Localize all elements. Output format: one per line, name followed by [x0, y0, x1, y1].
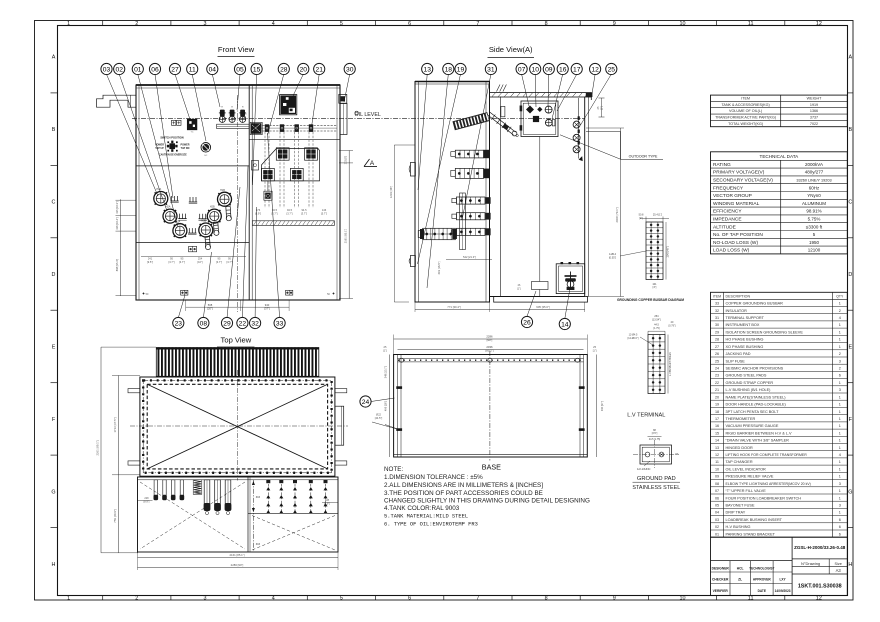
svg-text:QTY: QTY — [836, 294, 844, 298]
svg-text:Ø22: Ø22 — [376, 412, 381, 416]
svg-text:ZGSL-H-2000/33.26-0.48: ZGSL-H-2000/33.26-0.48 — [794, 545, 846, 550]
svg-text:6. TYPE OF OIL:ENVIROTEMP FR3: 6. TYPE OF OIL:ENVIROTEMP FR3 — [384, 521, 478, 527]
svg-text:2000kVA: 2000kVA — [805, 162, 823, 167]
svg-text:C: C — [52, 200, 56, 206]
svg-text:2: 2 — [839, 309, 841, 313]
svg-text:A: A — [370, 160, 375, 167]
svg-text:[3.7"]: [3.7"] — [227, 260, 233, 264]
svg-text:98.91%: 98.91% — [806, 209, 821, 214]
svg-text:480y/277: 480y/277 — [805, 170, 824, 175]
svg-text:THERMOMETER: THERMOMETER — [726, 417, 756, 421]
svg-text:PRIMARY VOLTAGE(V): PRIMARY VOLTAGE(V) — [713, 170, 765, 176]
svg-text:1919: 1919 — [810, 103, 818, 107]
svg-text:07: 07 — [518, 66, 526, 73]
svg-text:20: 20 — [715, 395, 719, 399]
svg-text:22: 22 — [715, 381, 719, 385]
svg-text:HCL: HCL — [737, 566, 744, 570]
svg-text:4: 4 — [272, 596, 275, 602]
svg-text:≤3300 ft: ≤3300 ft — [806, 224, 823, 229]
svg-text:23: 23 — [175, 320, 183, 327]
svg-text:940 [37"]: 940 [37"] — [600, 401, 604, 412]
svg-text:TECHNICAL DATA: TECHNICAL DATA — [760, 154, 800, 159]
svg-text:INSTRUMENT BOX: INSTRUMENT BOX — [726, 323, 760, 327]
svg-text:03: 03 — [715, 518, 719, 522]
svg-text:GROUND PAD: GROUND PAD — [637, 476, 676, 482]
svg-text:1SKT.001.S30038: 1SKT.001.S30038 — [798, 584, 842, 590]
svg-text:[20"]: [20"] — [207, 307, 213, 311]
svg-text:H: H — [52, 562, 56, 568]
svg-text:TANK & ACCESSORIES(KG): TANK & ACCESSORIES(KG) — [721, 103, 769, 107]
svg-text:[5.7"]: [5.7"] — [321, 211, 327, 215]
svg-text:5.TANK MATERIAL:MILD STEEL: 5.TANK MATERIAL:MILD STEEL — [384, 514, 468, 520]
svg-text:RIGID BARRIER BETWEEN H.V & L.: RIGID BARRIER BETWEEN H.V & L.V — [726, 431, 793, 435]
svg-text:DATE: DATE — [758, 589, 766, 593]
svg-text:5: 5 — [340, 21, 343, 27]
svg-text:12: 12 — [816, 596, 822, 602]
svg-text:1: 1 — [839, 338, 841, 342]
svg-text:ZL: ZL — [738, 578, 742, 582]
svg-text:1950: 1950 — [809, 240, 820, 245]
svg-text:1: 1 — [839, 467, 841, 471]
svg-text:PARKING STAND BRACKET: PARKING STAND BRACKET — [726, 532, 776, 536]
svg-text:02: 02 — [715, 525, 719, 529]
svg-text:28: 28 — [715, 338, 719, 342]
svg-text:TC: TC — [191, 132, 194, 134]
svg-text:CHECKER: CHECKER — [712, 578, 729, 582]
svg-text:3: 3 — [839, 388, 841, 392]
svg-text:LIFTING HOOK FOR COMPLETE TRAN: LIFTING HOOK FOR COMPLETE TRANSFORMER — [726, 453, 808, 457]
svg-text:21: 21 — [315, 66, 323, 73]
svg-text:25: 25 — [715, 359, 719, 363]
svg-text:[1"]: [1"] — [593, 348, 597, 352]
svg-text:29: 29 — [715, 330, 719, 334]
svg-text:[3.7"]: [3.7"] — [287, 211, 293, 215]
svg-text:10: 10 — [715, 467, 719, 471]
svg-text:VECTOR GROUP: VECTOR GROUP — [713, 193, 752, 199]
svg-text:COPPER GROUNDING BUSBAR: COPPER GROUNDING BUSBAR — [726, 302, 784, 306]
svg-text:416 [16.4"]: 416 [16.4"] — [115, 217, 119, 230]
svg-text:06: 06 — [151, 66, 159, 73]
svg-text:E: E — [52, 345, 56, 351]
svg-text:3: 3 — [839, 504, 841, 508]
svg-text:[3.7"]: [3.7"] — [301, 211, 307, 215]
svg-text:2: 2 — [839, 352, 841, 356]
svg-text:INSULATOR: INSULATOR — [726, 309, 748, 313]
svg-text:04: 04 — [715, 511, 719, 515]
svg-text:Top View: Top View — [221, 336, 252, 345]
svg-text:12: 12 — [816, 21, 822, 27]
svg-text:28: 28 — [280, 66, 288, 73]
svg-text:CHANGED SLIGHTLY IN THIS DRAWI: CHANGED SLIGHTLY IN THIS DRAWING DURING … — [384, 497, 590, 504]
svg-text:4.TANK COLOR:RAL 9003: 4.TANK COLOR:RAL 9003 — [384, 505, 460, 512]
svg-text:3.THE POSITION OF PART ACCESSO: 3.THE POSITION OF PART ACCESSORIES COULD… — [384, 490, 543, 497]
svg-text:30: 30 — [346, 66, 354, 73]
svg-text:905 [35.6"]: 905 [35.6"] — [536, 305, 550, 309]
svg-text:BASE: BASE — [482, 462, 501, 471]
svg-text:WEIGHT: WEIGHT — [807, 97, 822, 101]
svg-text:1: 1 — [839, 460, 841, 464]
svg-text:[6.9"]: [6.9"] — [255, 211, 261, 215]
svg-text:SECONDARY VOLTAGE(V): SECONDARY VOLTAGE(V) — [713, 178, 773, 184]
svg-text:RATING: RATING — [713, 162, 731, 168]
svg-text:14: 14 — [561, 321, 569, 328]
svg-text:1: 1 — [839, 446, 841, 450]
svg-text:08: 08 — [200, 320, 208, 327]
svg-text:DESIGNER: DESIGNER — [712, 566, 730, 570]
svg-text:11: 11 — [189, 66, 196, 73]
svg-text:10: 10 — [531, 66, 539, 73]
svg-text:3: 3 — [839, 359, 841, 363]
svg-text:33: 33 — [276, 320, 284, 327]
svg-text:13: 13 — [715, 446, 719, 450]
svg-text:DESCRIPTION: DESCRIPTION — [726, 294, 751, 298]
svg-text:1.DIMENSION TOLERANCE : ±5%: 1.DIMENSION TOLERANCE : ±5% — [384, 474, 483, 481]
svg-text:12: 12 — [591, 66, 599, 73]
svg-text:[1"]: [1"] — [517, 287, 521, 290]
svg-text:TAP DN: TAP DN — [181, 147, 190, 150]
svg-text:H2A: H2A — [166, 206, 171, 209]
svg-text:27: 27 — [715, 345, 719, 349]
svg-text:26: 26 — [523, 319, 531, 326]
svg-text:26: 26 — [715, 352, 719, 356]
svg-text:2161 [85.1"]: 2161 [85.1"] — [230, 553, 245, 557]
svg-text:TAP UP: TAP UP — [155, 147, 164, 150]
svg-text:406 [16"]: 406 [16"] — [383, 401, 387, 412]
svg-text:33: 33 — [715, 302, 719, 306]
svg-text:[1"]: [1"] — [383, 348, 387, 352]
svg-text:1143 [45"]: 1143 [45"] — [667, 246, 670, 257]
svg-text:12: 12 — [715, 453, 719, 457]
svg-text:[8.9"]: [8.9"] — [324, 502, 330, 505]
svg-text:1: 1 — [839, 345, 841, 349]
svg-text:508: 508 — [208, 303, 213, 307]
svg-text:940: 940 — [265, 303, 270, 307]
svg-text:[3.7"]: [3.7"] — [179, 260, 185, 264]
svg-text:A: A — [848, 55, 852, 61]
svg-text:44.5 [1.75]: 44.5 [1.75] — [649, 438, 661, 441]
svg-text:18: 18 — [445, 66, 453, 73]
svg-text:17: 17 — [573, 66, 581, 73]
svg-text:1219 [48"]: 1219 [48"] — [389, 186, 393, 198]
svg-text:10: 10 — [680, 21, 686, 27]
svg-text:771 [30.4"]: 771 [30.4"] — [447, 305, 461, 309]
svg-text:14/09/2023: 14/09/2023 — [775, 589, 791, 593]
svg-text:3737: 3737 — [810, 116, 818, 120]
svg-text:20: 20 — [300, 66, 308, 73]
svg-text:7: 7 — [476, 21, 479, 27]
svg-text:6: 6 — [839, 525, 841, 529]
svg-text:898 [35.4"]: 898 [35.4"] — [115, 258, 119, 271]
svg-text:NO-LOAD LOSS (W): NO-LOAD LOSS (W) — [713, 240, 758, 246]
svg-text:1: 1 — [839, 439, 841, 443]
svg-text:GROUND STEEL PADS: GROUND STEEL PADS — [726, 374, 767, 378]
svg-text:09: 09 — [715, 475, 719, 479]
svg-text:NOTE:: NOTE: — [384, 466, 403, 473]
svg-text:Side View(A): Side View(A) — [489, 45, 533, 54]
svg-text:1: 1 — [839, 410, 841, 414]
svg-text:C: C — [848, 200, 852, 206]
svg-text:13: 13 — [423, 66, 431, 73]
svg-text:G: G — [51, 489, 55, 495]
svg-text:ALUMINUM: ALUMINUM — [802, 201, 826, 206]
svg-text:H3B: H3B — [201, 220, 206, 223]
svg-text:1: 1 — [839, 431, 841, 435]
svg-text:32: 32 — [251, 320, 259, 327]
svg-text:24: 24 — [715, 367, 719, 371]
svg-text:02: 02 — [115, 66, 123, 73]
svg-text:PRESSURE RELIEF VALVE: PRESSURE RELIEF VALVE — [726, 475, 774, 479]
svg-text:1: 1 — [839, 330, 841, 334]
svg-text:06: 06 — [715, 496, 719, 500]
svg-text:2161 [85.1"]: 2161 [85.1"] — [344, 229, 348, 244]
svg-text:11: 11 — [748, 21, 754, 27]
svg-text:17: 17 — [715, 417, 719, 421]
svg-text:ITEM: ITEM — [741, 97, 750, 101]
svg-text:1: 1 — [839, 496, 841, 500]
svg-text:1: 1 — [839, 417, 841, 421]
svg-text:21: 21 — [715, 388, 719, 392]
svg-text:[10"]: [10"] — [197, 260, 203, 264]
svg-text:D: D — [848, 272, 852, 278]
svg-text:A3: A3 — [836, 568, 842, 573]
svg-text:08: 08 — [715, 482, 719, 486]
svg-text:4: 4 — [839, 316, 841, 320]
svg-text:2261 [89.1"]: 2261 [89.1"] — [96, 440, 100, 455]
svg-text:19: 19 — [457, 66, 465, 73]
svg-text:7022: 7022 — [810, 122, 818, 126]
svg-text:TAP CHANGER: TAP CHANGER — [726, 460, 753, 464]
svg-text:18: 18 — [715, 410, 719, 414]
svg-text:348 [13.7"]: 348 [13.7"] — [383, 365, 387, 378]
svg-text:94.5: 94.5 — [287, 208, 293, 212]
svg-text:1: 1 — [839, 302, 841, 306]
svg-text:LOAD LOSS (W): LOAD LOSS (W) — [713, 248, 750, 254]
svg-text:5.75%: 5.75% — [808, 217, 821, 222]
svg-text:DRIP TRAY: DRIP TRAY — [726, 511, 746, 515]
svg-text:4: 4 — [272, 21, 275, 27]
svg-text:XO PHASE BUSHING: XO PHASE BUSHING — [726, 345, 764, 349]
svg-text:Front View: Front View — [218, 45, 255, 54]
svg-text:31: 31 — [487, 66, 495, 73]
svg-text:6: 6 — [408, 21, 411, 27]
svg-text:04: 04 — [209, 66, 217, 73]
svg-text:3PT LATCH PENTA SEC BOLT: 3PT LATCH PENTA SEC BOLT — [726, 410, 780, 414]
svg-text:B: B — [52, 127, 56, 133]
svg-text:G: G — [848, 489, 852, 495]
svg-text:419 [16.5"]: 419 [16.5"] — [437, 261, 441, 274]
svg-text:16: 16 — [559, 66, 567, 73]
svg-text:25: 25 — [608, 66, 616, 73]
svg-text:11: 11 — [715, 460, 719, 464]
svg-text:E: E — [848, 345, 852, 351]
svg-text:15: 15 — [253, 66, 261, 73]
svg-text:TECHNOLOGIST: TECHNOLOGIST — [749, 566, 774, 570]
svg-text:YNyn0: YNyn0 — [807, 193, 821, 198]
svg-text:2.ALL DIMENSIONS ARE IN MILLIM: 2.ALL DIMENSIONS ARE IN MILLIMETERS & [I… — [384, 482, 543, 489]
svg-text:[12-Ø0.6"]: [12-Ø0.6"] — [628, 337, 639, 340]
svg-text:TERMINAL SUPPORT: TERMINAL SUPPORT — [726, 316, 765, 320]
svg-text:A: A — [52, 55, 56, 61]
svg-text:NAME PLATE(STAINLESS STEEL): NAME PLATE(STAINLESS STEEL) — [726, 395, 787, 399]
svg-text:1: 1 — [839, 511, 841, 515]
svg-text:6: 6 — [839, 374, 841, 378]
svg-text:1713 [67.5"]: 1713 [67.5"] — [113, 417, 117, 432]
svg-text:DOOR HANDLE (PAD-LOCKABLE): DOOR HANDLE (PAD-LOCKABLE) — [726, 403, 787, 407]
svg-text:303: 303 — [256, 496, 261, 499]
svg-text:1: 1 — [67, 21, 70, 27]
svg-text:29: 29 — [223, 320, 231, 327]
svg-text:6: 6 — [839, 532, 841, 536]
svg-text:WINDING MATERIAL: WINDING MATERIAL — [713, 201, 760, 207]
svg-text:254: 254 — [654, 315, 659, 318]
svg-text:60Hz: 60Hz — [809, 185, 820, 190]
svg-text:203 [8"]: 203 [8"] — [345, 155, 348, 164]
svg-text:H2B: H2B — [210, 206, 215, 209]
svg-text:H-V BUSHING: H-V BUSHING — [726, 525, 751, 529]
svg-text:[13.54"]: [13.54"] — [652, 319, 661, 322]
svg-text:1: 1 — [839, 475, 841, 479]
svg-text:254: 254 — [198, 257, 203, 261]
svg-text:[3.7"]: [3.7"] — [216, 260, 222, 264]
svg-text:L.V.BUSBAR 8 HOLES: L.V.BUSBAR 8 HOLES — [669, 352, 672, 376]
svg-text:No. OF TAP POSITION: No. OF TAP POSITION — [713, 232, 763, 238]
svg-text:15: 15 — [715, 431, 719, 435]
svg-text:03: 03 — [103, 66, 111, 73]
svg-text:[37"]: [37"] — [264, 307, 270, 311]
svg-text:L-V BUSHING (B/1 HOLE): L-V BUSHING (B/1 HOLE) — [726, 388, 772, 392]
svg-text:07: 07 — [715, 489, 719, 493]
svg-text:1: 1 — [839, 403, 841, 407]
svg-text:HINGED DOOR: HINGED DOOR — [726, 446, 753, 450]
svg-text:9: 9 — [613, 21, 616, 27]
svg-text:2008 [79.1"]: 2008 [79.1"] — [615, 207, 619, 222]
svg-text:5: 5 — [340, 596, 343, 602]
svg-text:2286 [90"]: 2286 [90"] — [231, 563, 244, 567]
svg-text:“T” UPPER FILL VALVE: “T” UPPER FILL VALVE — [726, 489, 767, 493]
svg-text:6: 6 — [839, 518, 841, 522]
svg-text:1/2-13UNC: 1/2-13UNC — [637, 467, 651, 471]
svg-text:303: 303 — [256, 543, 261, 546]
svg-text:1366: 1366 — [810, 109, 818, 113]
svg-text:8: 8 — [545, 21, 548, 27]
svg-text:[9.5"]: [9.5"] — [147, 260, 153, 264]
svg-text:[4"]: [4"] — [653, 286, 657, 289]
svg-text:14: 14 — [715, 439, 719, 443]
svg-text:542 [21.3"]: 542 [21.3"] — [463, 255, 476, 259]
svg-text:[8.9"]: [8.9"] — [144, 500, 150, 503]
svg-text:31: 31 — [715, 316, 719, 320]
svg-text:759 [29.9"]: 759 [29.9"] — [113, 509, 117, 523]
svg-text:VERIFIER: VERIFIER — [713, 589, 729, 593]
svg-text:4: 4 — [839, 453, 841, 457]
svg-text:2: 2 — [135, 596, 138, 602]
svg-text:ALTITUDE: ALTITUDE — [713, 224, 736, 230]
svg-text:OIL LEVEL INDICATOR: OIL LEVEL INDICATOR — [726, 467, 767, 471]
svg-text:H1B: H1B — [220, 189, 225, 192]
svg-text:VOLUME OF OIL(L): VOLUME OF OIL(L) — [729, 109, 762, 113]
svg-text:[3.5"]: [3.5"] — [652, 432, 658, 435]
svg-text:OUTDOOR TYPE: OUTDOOR TYPE — [629, 155, 658, 159]
svg-text:01: 01 — [134, 66, 142, 73]
svg-text:[0.79"]: [0.79"] — [669, 324, 676, 327]
svg-text:25.4 [1"]: 25.4 [1"] — [653, 214, 663, 217]
svg-text:LXY: LXY — [779, 578, 786, 582]
svg-text:24: 24 — [362, 399, 370, 406]
svg-text:1: 1 — [839, 323, 841, 327]
svg-text:09: 09 — [545, 66, 553, 73]
svg-text:ELBOW TYPE LIGHTNING ARRESTER(: ELBOW TYPE LIGHTNING ARRESTER(MCOV 20 kV… — [726, 482, 811, 486]
svg-text:1: 1 — [839, 395, 841, 399]
svg-text:HO PHASE BUSHING: HO PHASE BUSHING — [726, 338, 764, 342]
svg-text:GROUNDING COPPER BUSBAR DIAGRA: GROUNDING COPPER BUSBAR DIAGRAM — [617, 298, 684, 302]
svg-text:12100: 12100 — [808, 248, 821, 253]
svg-text:TRANSFORMER ACTIVE PART(KG): TRANSFORMER ACTIVE PART(KG) — [715, 116, 776, 120]
svg-text:1: 1 — [839, 381, 841, 385]
svg-text:[1"]: [1"] — [600, 106, 604, 110]
svg-text:IMPEDANCE: IMPEDANCE — [713, 217, 742, 223]
svg-text:Size: Size — [835, 562, 842, 566]
svg-text:SEISMIC ANCHOR PROVISIONS: SEISMIC ANCHOR PROVISIONS — [726, 367, 784, 371]
svg-text:2: 2 — [135, 21, 138, 27]
svg-text:33260 LINE/Y 19203: 33260 LINE/Y 19203 — [796, 179, 831, 183]
svg-text:146: 146 — [322, 208, 327, 212]
svg-text:SC: SC — [204, 155, 207, 157]
svg-text:B: B — [848, 127, 852, 133]
svg-text:APPROVER: APPROVER — [753, 578, 772, 582]
svg-text:9: 9 — [613, 596, 616, 602]
svg-text:N°Drawing: N°Drawing — [801, 561, 820, 566]
svg-text:[1.75]: [1.75] — [654, 327, 660, 330]
svg-text:ITEM: ITEM — [713, 294, 721, 298]
svg-text:[3.7"]: [3.7"] — [169, 260, 175, 264]
svg-text:2: 2 — [839, 367, 841, 371]
svg-text:BAYONET FUSE: BAYONET FUSE — [726, 504, 755, 508]
svg-text:FREQUENCY: FREQUENCY — [713, 185, 744, 191]
svg-text:32: 32 — [715, 309, 719, 313]
svg-text:D: D — [52, 272, 56, 278]
svg-text:H: H — [848, 562, 852, 568]
svg-text:[44.5°]: [44.5°] — [375, 416, 383, 420]
svg-text:[2"]: [2"] — [639, 217, 643, 220]
svg-text:L.V TERMINAL: L.V TERMINAL — [627, 413, 665, 419]
svg-text:FOUR POSITION LOADBREAKER SWIT: FOUR POSITION LOADBREAKER SWITCH — [726, 496, 802, 500]
svg-text:ISOLATION SCREEN GROUNDING SLE: ISOLATION SCREEN GROUNDING SLEEVE — [726, 330, 804, 334]
svg-text:23: 23 — [715, 374, 719, 378]
svg-text:VACUUM PRESSURE GAUGE: VACUUM PRESSURE GAUGE — [726, 424, 779, 428]
svg-text:“DRAIN VALVE WITH 3/8” SAMPLER: “DRAIN VALVE WITH 3/8” SAMPLER — [726, 439, 790, 443]
svg-text:7: 7 — [476, 596, 479, 602]
svg-text:1: 1 — [839, 424, 841, 428]
svg-text:241: 241 — [148, 257, 153, 261]
svg-text:1: 1 — [839, 489, 841, 493]
svg-text:[0.55"]: [0.55"] — [609, 256, 616, 259]
svg-text:[90"]: [90"] — [487, 338, 493, 342]
svg-text:8: 8 — [545, 596, 548, 602]
svg-text:01: 01 — [715, 532, 719, 536]
svg-text:05: 05 — [236, 66, 244, 73]
svg-text:3: 3 — [839, 482, 841, 486]
svg-text:3: 3 — [204, 21, 207, 27]
svg-text:JACKING PAD: JACKING PAD — [726, 352, 751, 356]
svg-text:10: 10 — [680, 596, 686, 602]
svg-text:[80.2"]: [80.2"] — [486, 349, 494, 353]
svg-text:6: 6 — [408, 596, 411, 602]
svg-text:415 [16.3"]: 415 [16.3"] — [115, 201, 119, 214]
svg-text:1: 1 — [67, 596, 70, 602]
svg-text:LOADBREAK BUSHING INSERT: LOADBREAK BUSHING INSERT — [726, 518, 783, 522]
svg-text:EFFICIENCY: EFFICIENCY — [713, 209, 742, 215]
svg-text:27: 27 — [171, 66, 179, 73]
